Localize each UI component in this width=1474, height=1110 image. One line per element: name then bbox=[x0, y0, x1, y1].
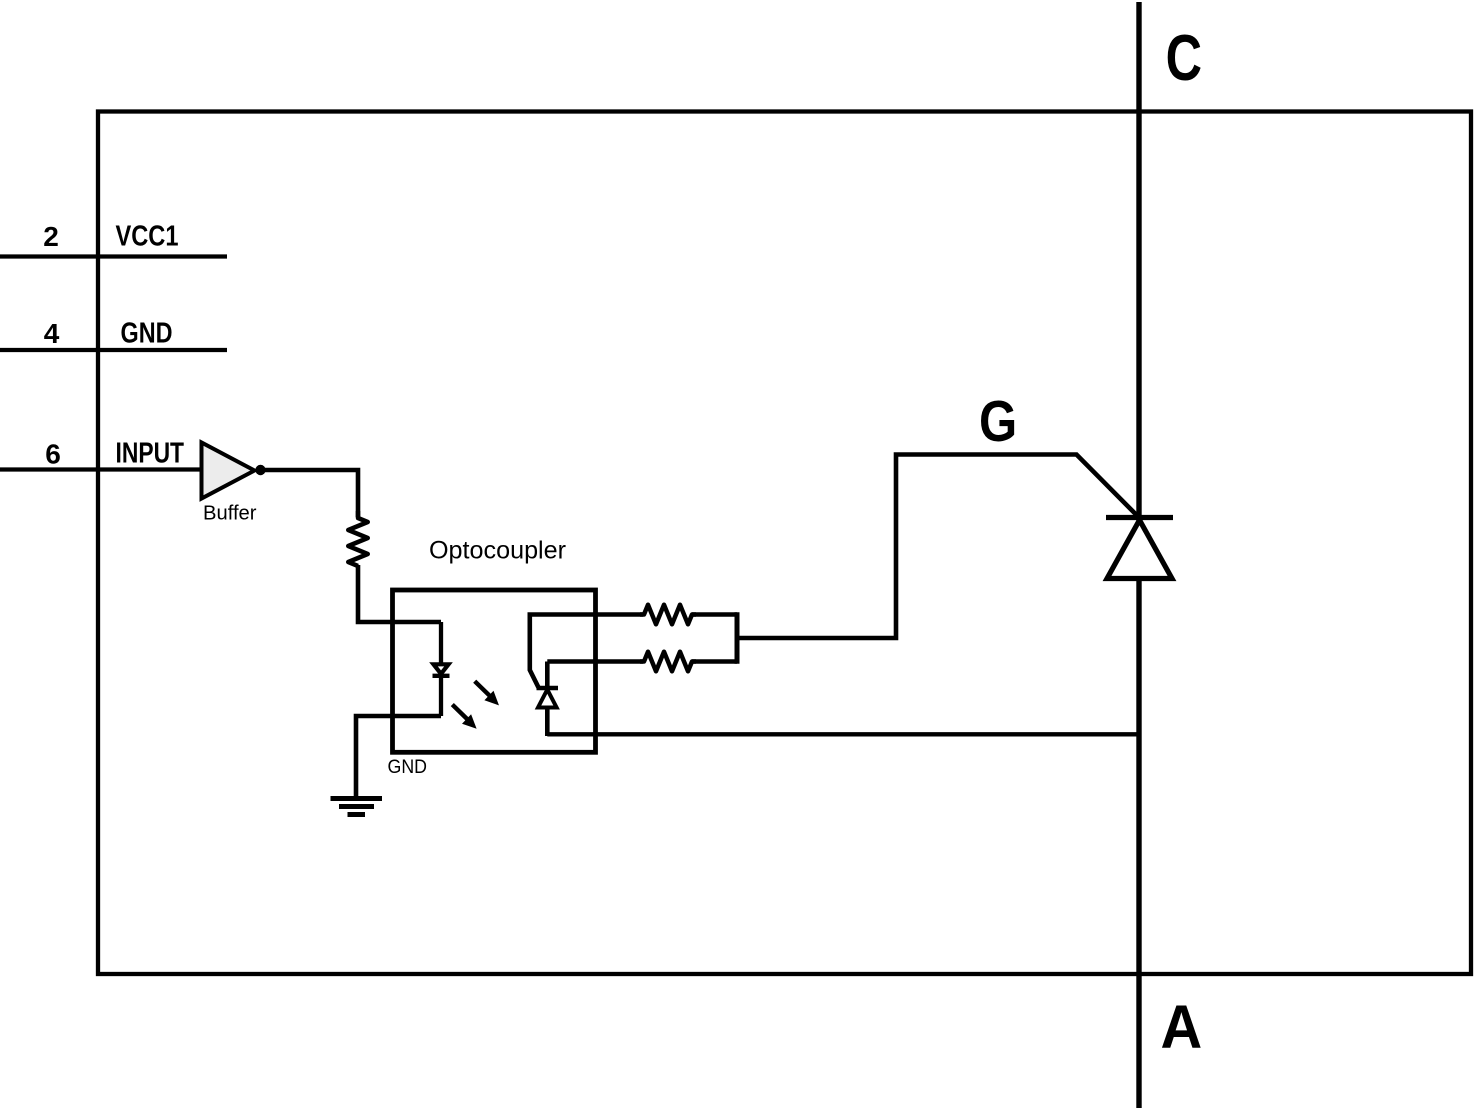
svg-text:2: 2 bbox=[43, 221, 59, 252]
pin 6 lead bbox=[0, 467, 202, 471]
wire buffer output to resistor bbox=[261, 470, 359, 517]
svg-text:4: 4 bbox=[44, 318, 60, 349]
svg-text:A: A bbox=[1161, 993, 1203, 1062]
node G wire to thyristor gate bbox=[737, 455, 1139, 639]
photo-SCR gate branch wire bbox=[530, 615, 643, 688]
svg-text:Buffer: Buffer bbox=[203, 503, 257, 525]
pin 2 lead bbox=[0, 254, 227, 258]
svg-text:G: G bbox=[979, 390, 1017, 454]
join vertical of R2/R3 bbox=[735, 612, 740, 663]
wire LED cathode to ground bbox=[356, 716, 441, 797]
photo-SCR D2 bbox=[537, 662, 559, 737]
buffer U1 bbox=[202, 443, 255, 499]
wire R2 to join bbox=[692, 612, 737, 617]
resistor R3 (lower gate resistor) bbox=[640, 652, 696, 672]
svg-text:VCC1: VCC1 bbox=[116, 220, 179, 252]
svg-text:GND: GND bbox=[121, 317, 173, 349]
thyristor SCR (C-A diode) bbox=[1106, 518, 1173, 579]
svg-text:C: C bbox=[1166, 21, 1202, 94]
resistor R2 (upper gate resistor) bbox=[640, 605, 696, 625]
LED D1 bbox=[433, 622, 450, 716]
svg-text:6: 6 bbox=[45, 439, 61, 470]
wire photo-SCR cathode to R3 bbox=[547, 659, 643, 664]
light emission arrows bbox=[452, 681, 499, 729]
wire resistor to LED anode bbox=[358, 565, 441, 622]
wire R3 to join bbox=[692, 659, 737, 664]
wire C-A main vertical bbox=[1136, 2, 1141, 1108]
svg-text:GND: GND bbox=[388, 756, 428, 778]
wire photo-SCR anode to cathode rail bbox=[547, 732, 1139, 736]
svg-text:INPUT: INPUT bbox=[116, 437, 185, 469]
resistor R1 (input series) bbox=[348, 511, 368, 566]
outer box (device boundary) bbox=[98, 112, 1471, 975]
svg-text:Optocoupler: Optocoupler bbox=[429, 538, 566, 565]
buffer output junction dot bbox=[255, 465, 265, 475]
ground bbox=[331, 799, 383, 815]
pin 4 lead bbox=[0, 348, 227, 352]
optocoupler U2 box bbox=[393, 590, 596, 752]
